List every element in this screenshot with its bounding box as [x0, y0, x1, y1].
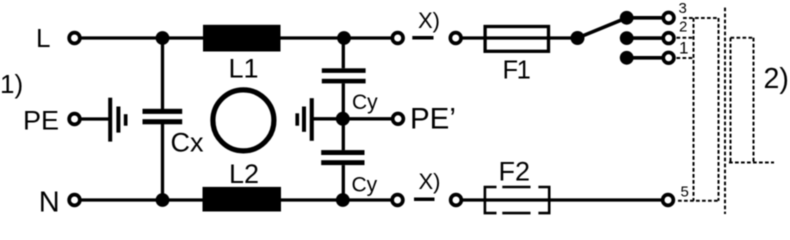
dashed link terminal 2 horizontal	[677, 37, 693, 39]
terminal N circle	[69, 195, 80, 206]
wire N terminal to L2	[82, 198, 203, 201]
svg-text:Cx: Cx	[171, 127, 204, 157]
wire Cx vertical upper	[161, 38, 164, 109]
dashed link terminal 3 horizontal	[683, 17, 719, 19]
capacitor Cx	[143, 109, 183, 124]
svg-text:3: 3	[679, 0, 687, 17]
choke core circle	[213, 90, 274, 151]
wire PE' node to PE' terminal	[343, 117, 392, 120]
svg-text:1): 1)	[0, 69, 23, 99]
dashed link terminal 5 horizontal	[678, 200, 719, 202]
svg-text:X): X)	[419, 169, 441, 194]
inductor L2	[203, 187, 282, 212]
node junction PE'/Cy	[336, 112, 350, 126]
node junction N/Cx	[156, 193, 170, 207]
svg-text:2: 2	[679, 19, 687, 36]
svg-text:PE’: PE’	[410, 103, 456, 136]
terminal 1 circle	[663, 52, 674, 63]
node junction L/Cx	[156, 31, 170, 45]
dashed link terminal 1 horizontal	[677, 57, 693, 59]
terminal PE circle	[69, 114, 80, 125]
terminal 2 circle	[663, 33, 674, 44]
svg-text:L: L	[36, 23, 50, 53]
switch contact 3 dot	[620, 11, 634, 25]
svg-text:Cy: Cy	[352, 91, 378, 114]
wire contact 1	[627, 56, 663, 60]
connector X) lower dash	[414, 198, 435, 202]
terminal L circle	[69, 33, 80, 44]
fuse F2 dashed outline	[485, 187, 549, 213]
connector X) lower left circle	[392, 195, 403, 206]
inductor L1	[203, 25, 281, 52]
wire Cx vertical lower	[161, 124, 164, 200]
wire L1 to X) break	[281, 36, 392, 39]
wire X) to F2	[463, 198, 662, 201]
dashed link vertical D	[730, 38, 732, 163]
switch contact 2 dot	[620, 31, 634, 45]
fuse F1	[485, 27, 548, 52]
svg-text:1: 1	[679, 39, 688, 58]
switch blade to position 3	[578, 18, 627, 38]
dashed link horizontal selector bottom	[729, 162, 774, 164]
wire contact 2	[627, 36, 663, 40]
svg-text:F1: F1	[503, 56, 530, 84]
terminal 3 circle	[663, 12, 674, 23]
wire middle ground to PE' node	[313, 117, 343, 120]
wire Cy vertical middle	[342, 83, 345, 150]
wire PE terminal to ground	[82, 117, 110, 120]
node junction L/Cy	[337, 31, 351, 45]
terminal 5 circle	[663, 195, 674, 206]
svg-text:PE: PE	[23, 106, 59, 136]
dashed link vertical E	[753, 38, 755, 163]
svg-text:F2: F2	[499, 156, 531, 186]
dashed link vertical C	[724, 8, 726, 214]
svg-text:X): X)	[418, 8, 440, 33]
terminal PE' circle	[393, 113, 404, 124]
capacitor Cy lower	[321, 150, 364, 165]
connector X) upper left circle	[392, 33, 403, 44]
wire contact 3	[627, 16, 663, 20]
dashed link horizontal selector top	[731, 37, 755, 39]
dashed link vertical A	[693, 18, 695, 201]
connector X) lower right circle	[451, 195, 462, 206]
svg-text:L1: L1	[229, 54, 259, 84]
ground PE (earth symbol, bars right of wire)	[108, 98, 127, 142]
wire Cy vertical bottom	[342, 165, 345, 200]
wire X) to F1 and through F1 to switch	[463, 36, 578, 39]
ground middle (earth symbol, bars left of wire)	[295, 98, 313, 141]
capacitor Cy upper	[322, 68, 366, 83]
svg-text:2): 2)	[764, 63, 789, 95]
svg-text:N: N	[39, 187, 60, 219]
node junction N/Cy	[336, 193, 350, 207]
svg-text:L2: L2	[229, 159, 259, 189]
switch contact 1 dot	[620, 51, 634, 65]
connector X) upper dash	[412, 36, 433, 40]
svg-text:Cy: Cy	[352, 174, 378, 197]
svg-text:5: 5	[681, 184, 689, 201]
connector X) upper right circle	[450, 33, 461, 44]
switch common node	[571, 31, 585, 45]
dashed link vertical B	[718, 18, 720, 201]
wire L2 to X) break	[281, 198, 391, 201]
wire L terminal to L1	[82, 36, 204, 39]
wire Cy vertical top	[342, 38, 345, 68]
